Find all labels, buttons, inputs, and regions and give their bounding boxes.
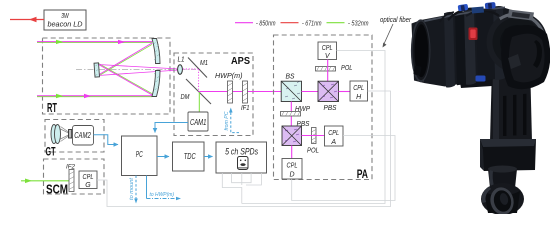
beamsplitter BS	[281, 72, 301, 102]
wire incoming top beam 850nm+532nm	[37, 40, 152, 44]
photo barrel section shading	[455, 12, 466, 86]
photo blue knob 2	[485, 2, 496, 9]
mirror stipple marks	[96, 43, 160, 91]
wire red beacon output beam 671nm	[10, 17, 44, 22]
signal CAM2 to PC (cyan)	[94, 135, 119, 145]
signal PC to TDC	[157, 156, 169, 158]
filter IF2	[66, 164, 75, 192]
beams GT lens to camera window	[61, 127, 69, 142]
photo barrel ring bulge 2 (knuckle)	[464, 9, 476, 84]
svg-text:PC: PC	[136, 150, 143, 159]
svg-text:TDC: TDC	[184, 151, 197, 161]
photo front lens dark	[415, 24, 429, 77]
polarizer POL (A arm)	[307, 128, 319, 155]
beam L1 to M1 dotted 850nm	[183, 68, 198, 70]
svg-text:APS: APS	[231, 55, 250, 67]
beam secondary to hole (lower)	[98, 70, 177, 75]
svg-text:POL: POL	[341, 63, 353, 72]
wire incoming 532nm sync beam	[21, 179, 69, 184]
secondary mirror	[94, 63, 99, 77]
beam PBS1 up to CPL V 850nm	[327, 60, 329, 82]
svg-text:- 671nm: - 671nm	[302, 21, 322, 28]
photo cables	[448, 9, 499, 20]
svg-text:CPL: CPL	[83, 174, 94, 181]
photo front rim ellipse	[411, 19, 431, 82]
box GT dashed	[45, 120, 104, 153]
fiber CPL A to CPL D bus (gray)	[292, 136, 395, 201]
svg-text:PA: PA	[357, 168, 369, 181]
signal CAM1 to PC (cyan)	[155, 123, 188, 133]
photo telescope barrel body	[421, 7, 517, 87]
legend 532nm	[327, 21, 369, 28]
wire incoming bottom beam 850nm+532nm	[37, 94, 152, 98]
coupler CPL D	[282, 159, 302, 180]
fiber CPL G to CPL H (gray)	[97, 91, 391, 207]
polarizing beamsplitter PBS2	[282, 119, 310, 146]
svg-text:5 ch SPDs: 5 ch SPDs	[225, 146, 258, 156]
svg-text:DM: DM	[181, 94, 190, 101]
beam BS down to PBS2 850nm	[290, 102, 292, 127]
legend 671nm	[281, 21, 322, 28]
beam DM to PA 850nm	[199, 91, 282, 93]
svg-text:to HWP(m): to HWP(m)	[150, 192, 175, 198]
svg-text:POL: POL	[307, 146, 319, 155]
computer PC	[122, 136, 158, 176]
beam primary bottom edge to secondary top	[98, 63, 153, 95]
svg-text:M1: M1	[200, 60, 208, 67]
filter IF1	[241, 81, 250, 112]
coupler CPL V	[318, 42, 337, 60]
photo mount ball base	[481, 183, 524, 215]
photo barrel ring bulge 3	[493, 6, 505, 80]
beam M1 down to DM dotted 850nm	[198, 69, 200, 92]
signal TDC to SPDs	[204, 156, 213, 158]
time tagger TDC	[173, 142, 205, 171]
beam secondary to hole (upper)	[98, 65, 177, 69]
svg-text:- 850nm: - 850nm	[256, 21, 276, 28]
camera CAM2	[73, 126, 94, 146]
primary mirror M (upper segment)	[152, 39, 160, 64]
svg-text:CAM1: CAM1	[190, 117, 207, 127]
box SCM dashed	[44, 159, 105, 194]
box PA dashed	[274, 35, 373, 180]
fiber CPL V to SPD bus (gray)	[242, 51, 385, 204]
camera CAM1	[188, 112, 208, 131]
waveplate HWP(m)	[215, 71, 243, 103]
beam PBS2 to CPL A 850nm	[302, 135, 325, 137]
waveplate HWP (static)	[281, 104, 311, 116]
beam DM down to CAM1 532nm	[198, 92, 200, 112]
svg-text:PBS: PBS	[324, 103, 337, 112]
svg-text:IF1: IF1	[241, 105, 250, 112]
photo blue knob 1	[458, 4, 469, 12]
photo back disc	[487, 12, 548, 73]
svg-text:SCM: SCM	[46, 182, 68, 197]
control to mount (dashed cyan, arrow down)	[129, 176, 138, 204]
photo mount joint box	[480, 139, 536, 171]
svg-text:CAM2: CAM2	[74, 130, 91, 140]
beam PBS2 down to CPL D 850nm	[291, 146, 293, 159]
photo flange bottom tab	[413, 65, 422, 75]
coupler CPL G	[79, 171, 97, 189]
svg-text:HWP(m): HWP(m)	[215, 71, 243, 80]
svg-text:CPL: CPL	[287, 163, 298, 170]
photo mount fork arm	[490, 62, 532, 141]
svg-text:CPL: CPL	[322, 45, 333, 52]
svg-text:CPL: CPL	[328, 130, 339, 137]
photo altitude hub bracket	[490, 48, 534, 78]
detector box 5 ch SPDs	[216, 142, 267, 173]
control to HWP(m) (cyan)	[147, 176, 182, 201]
svg-text:RT: RT	[47, 101, 57, 115]
svg-text:G: G	[85, 182, 91, 189]
photo navy plate between knobs	[472, 7, 485, 14]
box APS dashed	[174, 53, 253, 136]
photo barrel ring bulge 1	[444, 12, 455, 88]
beam PBS1 to CPL H 850nm	[339, 91, 351, 93]
svg-text:optical fiber: optical fiber	[380, 17, 412, 24]
lens L1	[178, 57, 185, 75]
label optical fiber with pointer	[380, 17, 412, 48]
mirror M1	[188, 58, 208, 78]
photo mount neck	[488, 169, 517, 188]
fiber stubs under SPDs (gray)	[222, 173, 261, 204]
lens GT objective	[51, 125, 61, 144]
svg-text:CPL: CPL	[353, 85, 364, 92]
polarizing beamsplitter PBS1	[318, 81, 339, 112]
photo small gray bracket on disc	[508, 10, 534, 21]
svg-text:from PC: from PC	[224, 111, 230, 130]
photo: tracking telescope on gimbal mount	[411, 2, 550, 217]
photo barrel top rim light	[424, 7, 505, 23]
svg-text:to mount: to mount	[129, 178, 135, 200]
beam BS to PBS1 850nm	[302, 91, 319, 93]
svg-text:GT: GT	[46, 146, 56, 158]
photo red knob	[469, 28, 478, 41]
camera window aperture	[69, 130, 72, 139]
control line from PC to HWP(m) motor (dashed cyan, arrow up)	[224, 108, 239, 133]
primary mirror M (lower segment)	[152, 71, 160, 97]
svg-text:L1: L1	[178, 57, 185, 64]
legend 850nm	[235, 21, 276, 28]
centerline optical axis (dash-dot)	[76, 68, 196, 70]
svg-text:- 532nm: - 532nm	[348, 21, 369, 28]
coupler CPL A	[325, 126, 344, 146]
svg-text:beacon LD: beacon LD	[48, 20, 84, 29]
polarizer POL (V arm)	[316, 63, 353, 72]
beacon laser box 3W beacon LD	[44, 10, 86, 30]
box RT receiving telescope (dashed)	[43, 38, 171, 114]
photo rear cover panel	[501, 25, 550, 89]
photo front flange side	[412, 20, 425, 83]
photo blue clamp on arm	[476, 76, 486, 82]
svg-text:A: A	[330, 139, 336, 146]
beam primary top edge to secondary bottom	[98, 43, 153, 77]
coupler CPL H	[350, 81, 368, 101]
dichroic mirror DM	[181, 79, 212, 104]
svg-text:D: D	[289, 171, 294, 178]
svg-text:BS: BS	[286, 72, 295, 81]
